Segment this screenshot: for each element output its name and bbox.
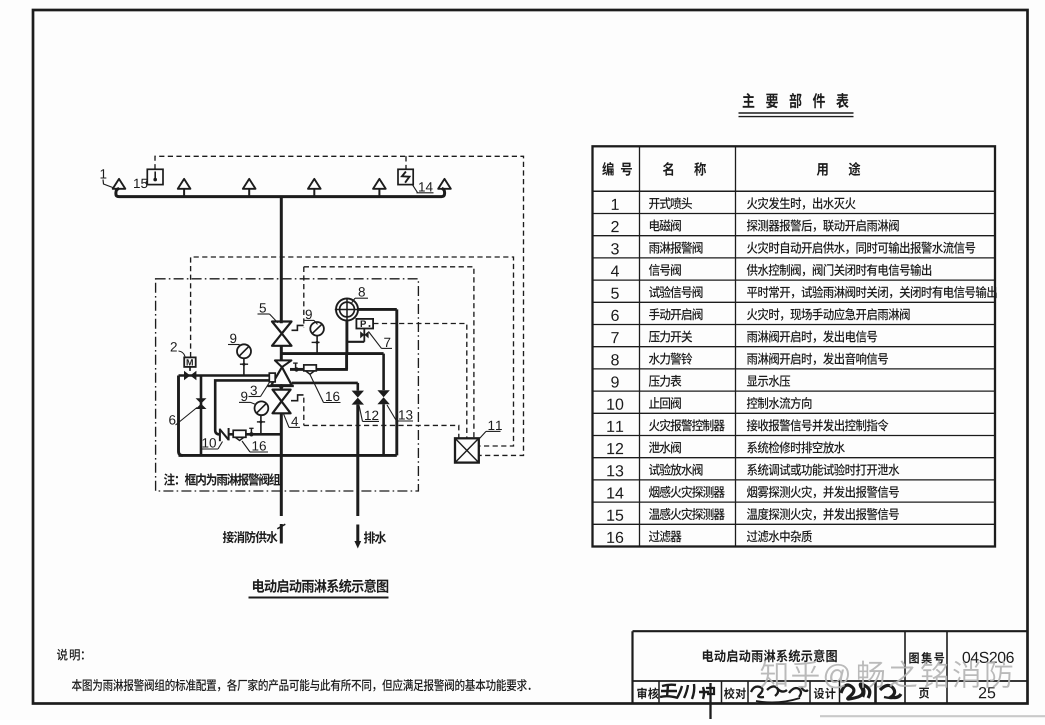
wire: drain stub with arrow: [356, 525, 359, 543]
open sprinkler 1 (head 5): [373, 179, 386, 189]
node: table row 10: [607, 399, 623, 410]
label 11 (fire alarm controller): [489, 421, 502, 430]
drain valve 12: [352, 391, 364, 398]
label 14 (smoke detector): [419, 182, 433, 191]
note text: frame content label: [164, 473, 280, 486]
wire: bottom collector pipe: [179, 454, 397, 457]
wire: priming loop inner corner pipe: [215, 380, 269, 434]
wire: riser below valve 4 to supply: [280, 413, 283, 516]
wire: sprinkler 5 stem: [378, 189, 380, 197]
wire: pipe below valve 13: [382, 404, 385, 455]
node: title block drawing name: [703, 649, 837, 662]
open sprinkler 1 (head 3): [243, 179, 256, 189]
solenoid valve 2: [184, 357, 196, 367]
node: bottom scan artifact line: [820, 715, 1045, 717]
smoke fire detector 14: [398, 169, 413, 184]
wire: solenoid control dashed line to controller: [191, 257, 514, 446]
wire: sprinkler 4 stem: [313, 189, 315, 197]
node: page label: [919, 688, 929, 699]
node: title block grid: [633, 630, 1029, 632]
title: electric-start deluge system schematic: [253, 579, 388, 593]
node: table row 14: [607, 487, 623, 498]
wire: sprinkler 3 stem: [248, 189, 250, 197]
wire: signal valves upper dashed line to controller: [304, 267, 474, 438]
wire: manual valve leg: [200, 376, 203, 456]
wire: valve body drain pipe to valve 12: [292, 382, 358, 385]
label 4 (signal valve): [291, 417, 298, 426]
label 16 (priming line filter): [253, 441, 266, 451]
wire: main riser from manifold to deluge valve group: [280, 197, 283, 324]
node: table row 3: [611, 243, 619, 254]
label 7 (pressure switch): [384, 338, 390, 347]
node: table row 7: [611, 332, 618, 343]
note: description heading: [57, 649, 68, 661]
label 8 (water motor gong): [359, 287, 365, 297]
open sprinkler 1 (head 4): [308, 179, 321, 189]
label 9 (gauge release loop): [230, 334, 236, 344]
label 9 (gauge priming line): [241, 392, 247, 402]
node: page number 25: [979, 687, 995, 698]
wire: fire water supply stub: [280, 524, 283, 544]
node: table row 12: [607, 443, 623, 454]
node: table row 16: [607, 532, 623, 543]
label 15 (thermal detector): [134, 179, 147, 188]
deluge alarm valve 3: [275, 360, 292, 367]
label 1 (open sprinkler): [101, 169, 107, 178]
label: drain: [364, 531, 386, 543]
label: connect fire water supply: [223, 531, 278, 543]
node: table row 6: [611, 310, 618, 321]
wire: drain pipe below valve 12: [356, 405, 359, 516]
wire: priming pipe to riser: [246, 433, 281, 436]
wire: pressure switch tee pipe: [347, 341, 364, 343]
wire: release loop left leg: [179, 376, 183, 456]
pressure gauge 9 (priming line): [255, 401, 269, 415]
node: table row 2: [611, 221, 618, 232]
fire alarm controller 11: [455, 438, 479, 462]
label 5 (test signal valve): [260, 303, 266, 312]
wire: signal valve 4 dashed riser lower: [303, 398, 305, 426]
node: table row 1: [612, 199, 619, 210]
wire: signal valve 5 dashed riser upper: [303, 267, 305, 327]
check valve 10: [219, 429, 221, 442]
label 6 (manual release valve): [169, 415, 175, 425]
node: parts table title: [743, 93, 849, 108]
label 16 (alarm line filter): [326, 392, 339, 402]
label 2 (solenoid valve): [171, 342, 177, 351]
label 3 (deluge alarm valve): [251, 386, 257, 396]
node: table header: [602, 162, 613, 176]
wire: detector loop dashed (detectors to controller 11): [155, 156, 524, 455]
node: table row 5: [611, 288, 619, 299]
wire: test line drop to valve 13: [382, 354, 385, 391]
node: parts table grid: [593, 146, 996, 546]
wire: gong bottom stem pipe: [345, 320, 348, 353]
open sprinkler 1 (head 6): [438, 179, 451, 189]
open sprinkler 1 (head 2): [178, 179, 191, 189]
wire: signal valves lower dashed line to controller: [304, 425, 459, 438]
wire: sprinkler branch manifold pipe: [116, 188, 445, 196]
pressure gauge 9 (release loop): [237, 344, 251, 358]
label 13 (test drain valve): [399, 410, 412, 420]
signal valve 5: [272, 322, 292, 334]
wire: riser segment deluge valve to valve 4: [280, 386, 283, 390]
wire: gong discharge pipe (right): [358, 308, 397, 311]
node: checker signature: [751, 687, 764, 698]
node: designer signature: [841, 684, 870, 699]
water motor alarm gong 8: [336, 299, 358, 321]
node: reviewer label: [637, 687, 658, 699]
thermal fire detector 15: [147, 169, 163, 184]
node: reviewer signature: [660, 685, 678, 698]
open sprinkler 1 (head 1): [113, 179, 126, 189]
wire: smoke detector 14 dashed stem: [405, 156, 407, 169]
wire: release loop top pipe: [179, 374, 269, 377]
node: atlas number value 04S206: [963, 652, 1014, 663]
node: table row 11: [607, 421, 623, 432]
node: table row 13: [607, 465, 623, 476]
test drain valve 13: [377, 390, 389, 397]
wire: test line pipe y=353.6: [281, 352, 383, 355]
signal valve 4: [273, 390, 291, 402]
wire: alarm line pipe (deluge valve to gong drop): [290, 368, 304, 371]
filter 16 (priming line): [229, 433, 234, 436]
node: table row 9: [611, 376, 618, 387]
node: deluge alarm valve group frame (dash-dot): [156, 279, 419, 491]
pressure gauge 9 (riser, upper): [310, 322, 324, 336]
node: designer label: [814, 688, 836, 699]
node: table row 4: [611, 265, 619, 276]
node: atlas number label: [909, 652, 944, 664]
wire: riser segment valve5 to deluge valve: [280, 346, 283, 361]
label 9 (pressure gauge upper): [306, 310, 312, 320]
node: checker label: [724, 687, 746, 699]
pressure switch 7 (P box): [363, 329, 365, 342]
node: table row 15: [607, 510, 623, 521]
manual release valve 6: [196, 398, 207, 403]
note: description body: [72, 679, 531, 692]
wire: pressure switch dashed line to controller: [373, 324, 467, 439]
node: table row 8: [611, 354, 619, 365]
wire: sprinkler 2 stem: [183, 189, 185, 197]
node: alarm line tee junction: [294, 367, 298, 371]
node: watermark zhihu: [761, 660, 1013, 688]
label 10 (check valve): [203, 438, 216, 448]
label 12 (drain valve): [365, 411, 378, 420]
filter 16 (alarm line): [304, 365, 317, 371]
